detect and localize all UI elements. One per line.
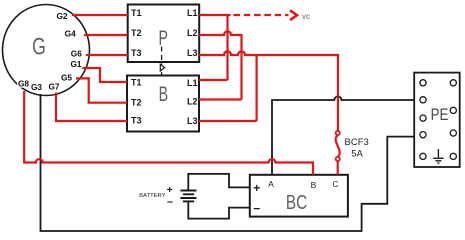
svg-text:T2: T2 <box>131 28 142 38</box>
svg-text:T1: T1 <box>131 78 142 88</box>
svg-text:BCF3: BCF3 <box>345 137 369 148</box>
svg-text:T1: T1 <box>131 8 142 18</box>
svg-text:L2: L2 <box>187 28 198 38</box>
svg-text:vc: vc <box>302 12 310 21</box>
svg-text:G8: G8 <box>18 79 29 89</box>
svg-text:B: B <box>311 180 317 190</box>
svg-text:+: + <box>253 181 260 195</box>
svg-text:C: C <box>332 179 338 189</box>
svg-text:PE: PE <box>431 106 449 125</box>
svg-text:G4: G4 <box>65 28 76 38</box>
svg-text:T2: T2 <box>131 98 142 108</box>
svg-text:−: − <box>167 197 173 209</box>
svg-text:G1: G1 <box>70 59 81 69</box>
svg-text:T3: T3 <box>131 116 142 126</box>
svg-text:+: + <box>167 184 173 196</box>
svg-text:BATTERY: BATTERY <box>139 193 165 199</box>
svg-text:G: G <box>32 33 46 61</box>
svg-text:L3: L3 <box>187 116 198 126</box>
svg-text:L3: L3 <box>187 48 198 58</box>
svg-text:L1: L1 <box>187 78 198 88</box>
svg-text:L1: L1 <box>187 8 198 18</box>
svg-text:G3: G3 <box>31 82 42 92</box>
svg-text:T3: T3 <box>131 48 142 58</box>
svg-text:B: B <box>159 82 168 106</box>
svg-text:−: − <box>253 202 260 216</box>
svg-text:5A: 5A <box>351 148 363 159</box>
svg-text:P: P <box>158 26 167 50</box>
svg-text:G7: G7 <box>48 82 59 92</box>
svg-text:BC: BC <box>286 191 307 214</box>
svg-text:G2: G2 <box>56 11 67 21</box>
svg-text:G5: G5 <box>61 73 72 83</box>
svg-text:L2: L2 <box>187 97 198 107</box>
svg-text:G6: G6 <box>71 49 82 59</box>
svg-text:A: A <box>268 179 274 189</box>
